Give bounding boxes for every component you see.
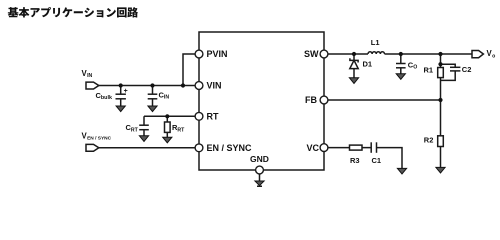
svg-text:EN / SYNC: EN / SYNC xyxy=(87,136,112,142)
svg-text:SW: SW xyxy=(304,49,319,59)
svg-text:RT: RT xyxy=(131,127,139,133)
svg-text:GND: GND xyxy=(250,154,269,164)
svg-text:PVIN: PVIN xyxy=(207,49,228,59)
svg-text:C2: C2 xyxy=(462,65,472,74)
svg-text:O: O xyxy=(413,65,417,71)
svg-text:RT: RT xyxy=(177,127,185,133)
svg-text:C1: C1 xyxy=(372,156,382,165)
svg-text:+: + xyxy=(124,88,128,95)
svg-text:VIN: VIN xyxy=(207,81,222,91)
svg-text:R1: R1 xyxy=(424,66,434,75)
svg-text:R3: R3 xyxy=(350,156,360,165)
svg-text:IN: IN xyxy=(87,73,92,79)
svg-text:R2: R2 xyxy=(424,135,434,144)
svg-text:RT: RT xyxy=(207,112,219,122)
svg-text:bulk: bulk xyxy=(101,95,112,101)
svg-text:EN / SYNC: EN / SYNC xyxy=(207,143,253,153)
svg-text:VC: VC xyxy=(306,143,319,153)
svg-text:FB: FB xyxy=(305,95,317,105)
svg-text:L1: L1 xyxy=(371,38,380,47)
svg-text:D1: D1 xyxy=(363,60,373,69)
svg-text:o: o xyxy=(492,53,495,59)
svg-text:IN: IN xyxy=(164,95,169,101)
